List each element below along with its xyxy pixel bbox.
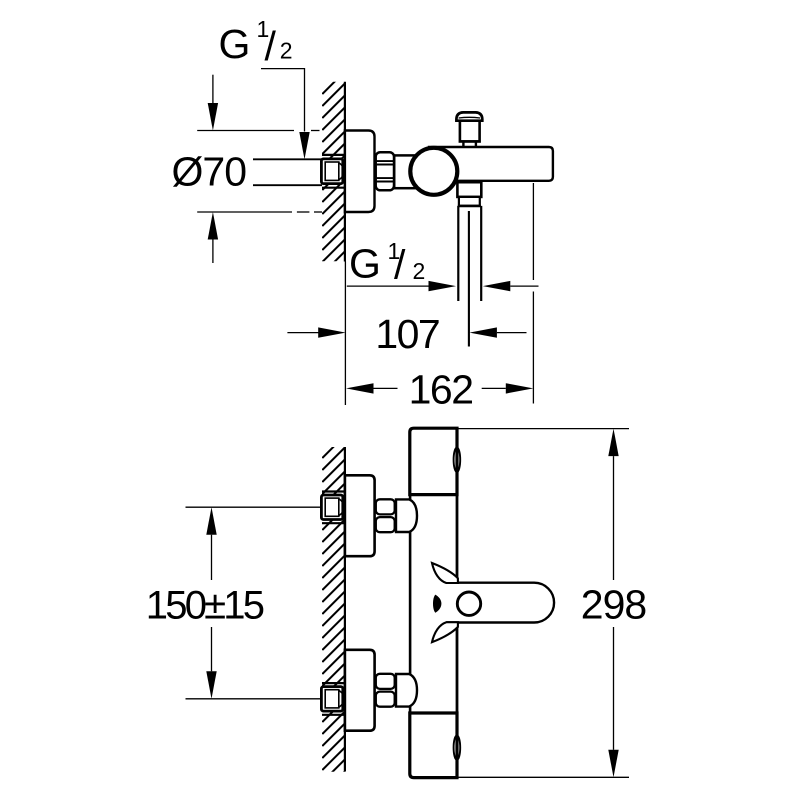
bottom block of body (bottom view) [410,713,457,778]
diverter knob cylinder [460,121,480,142]
svg-text:G: G [219,21,251,67]
svg-text:Ø70: Ø70 [172,149,247,195]
svg-text:162: 162 [409,367,473,413]
shower hose lines [457,206,459,301]
check valve dome (upper, bottom view) [396,499,417,532]
check valve dome (lower, bottom view) [396,674,417,707]
spout top leaf [432,563,458,583]
Ø70 dimension line with outside arrows [212,75,214,104]
150±15 dimension line and arrows [206,507,216,535]
wall hatching (bottom view) [322,434,347,795]
faucet body bar (top view) [429,147,553,181]
lens detail on body edge (top) [454,448,461,472]
spout outlet circle [457,592,480,615]
top block of body (bottom view) [410,428,457,494]
hex nut (top view) [376,152,394,190]
Ø70 dimension extension lines [197,130,294,132]
svg-text:2: 2 [413,258,426,284]
bath spout (bottom view) [447,583,555,623]
298 dimension line and arrows [608,429,618,457]
upper union nut behind wall (bottom view) [321,495,342,520]
right extension line (162) from body underside [532,183,534,280]
wall flange / escutcheon (top view) [345,131,375,213]
G 1/2 hose dimension arrows [347,285,429,287]
lower eccentric caps (bottom view) [322,682,345,684]
upper wall flange (bottom view) [345,475,375,556]
wall face line (top view) [344,82,346,262]
G 1/2 top leader line [261,69,305,132]
faucet body right edge (bottom view) [456,428,459,583]
lower union nut behind wall (bottom view) [321,687,342,712]
temperature knob crescent [433,595,441,613]
lower wall flange (bottom view) [345,650,375,731]
wall face line (bottom view) [344,447,346,772]
svg-text:/: / [394,242,406,288]
svg-text:/: / [265,23,277,69]
upper eccentric caps (bottom view) [322,490,345,492]
150±15 extension lines [186,506,322,508]
298 extension lines [457,428,629,430]
svg-text:2: 2 [280,38,293,64]
spout bottom leaf [432,622,458,642]
upper hex nut (bottom view) [376,499,395,514]
wall hatching (top view) [322,70,347,287]
faucet body left edge (bottom view) [409,495,412,713]
hose connection nut below body (top view) [457,182,481,197]
supply pipe in wall (top view) [253,158,322,160]
svg-text:G: G [349,241,381,287]
hose centre line + extension for 107 dimension [468,211,470,347]
svg-text:107: 107 [375,311,439,357]
wall face extension line down to 162 dimension [344,262,346,406]
lens detail on body edge (bottom) [454,735,461,759]
eccentric caps above/below union nut (top view) [322,154,345,156]
svg-text:298: 298 [581,581,647,627]
diverter knob cap [456,112,482,120]
thermostat valve circle (top view) [410,148,457,195]
union nut behind wall (top view) [321,159,342,184]
107 dimension [287,332,319,334]
svg-text:150±15: 150±15 [146,584,264,628]
lower hex nut (bottom view) [376,674,395,689]
162 dimension [346,383,374,393]
hose nipple band [459,197,480,206]
diverter knob neck [462,142,464,148]
connector cylinder (top view) [394,155,418,188]
